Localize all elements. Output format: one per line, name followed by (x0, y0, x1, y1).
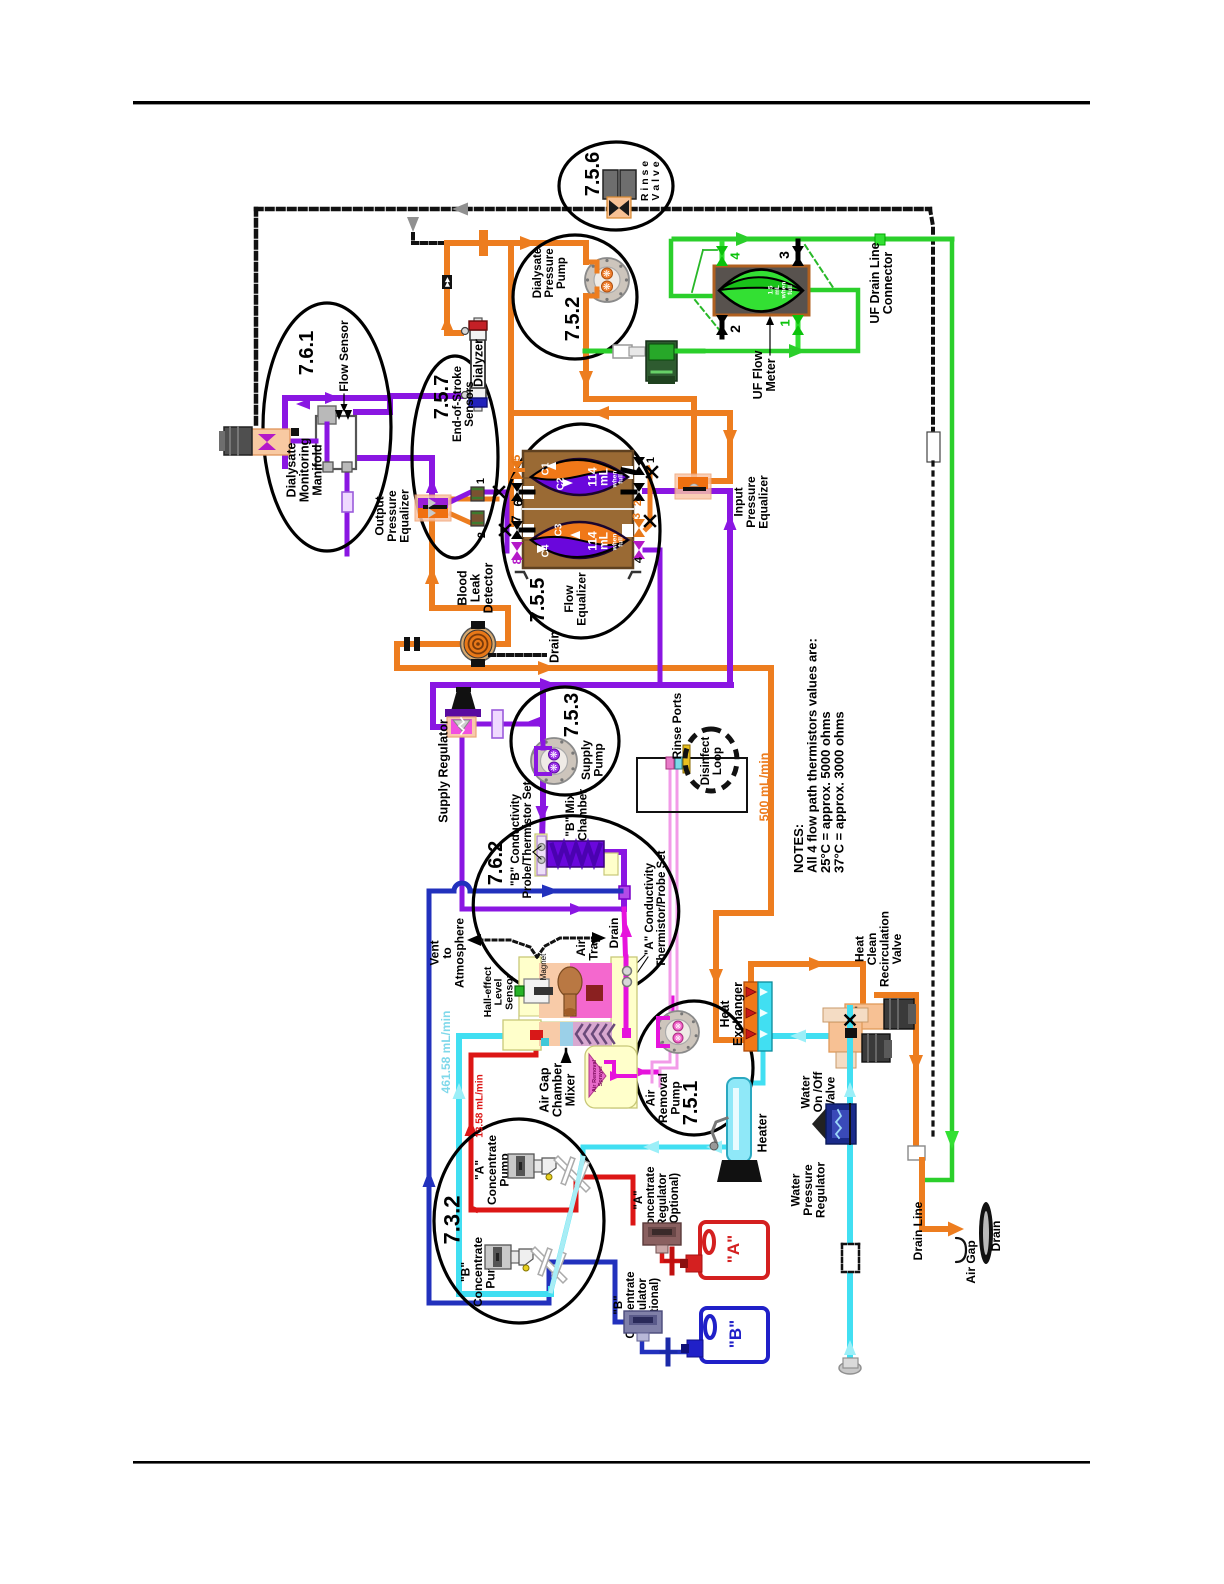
cyan arrow up riser (844, 1082, 856, 1097)
air trap slot (586, 985, 603, 1001)
wire supply pump to B mix chamber (542, 782, 543, 841)
equalizer chamber C1/C2 (531, 459, 628, 495)
wire UF loop left dashed (695, 300, 721, 332)
svg-text:VenttoAtmosphere: VenttoAtmosphere (428, 918, 467, 988)
white arrow C4 (537, 545, 547, 553)
supply regulator body (447, 717, 476, 737)
svg-text:2: 2 (632, 500, 644, 506)
drain line connector (908, 1146, 925, 1160)
cyan open arrow to pumps (643, 1141, 659, 1154)
svg-text:7.6.2: 7.6.2 (485, 841, 507, 885)
water valve plug (845, 1028, 857, 1038)
svg-text:7.5.6: 7.5.6 (582, 152, 604, 196)
wire UF loop right dashed diagonal (805, 245, 834, 289)
svg-text:7.5.2: 7.5.2 (562, 297, 584, 341)
connector on dotted drain line (927, 432, 940, 462)
wire UF drain top run (674, 237, 952, 242)
cyan open arrow 2 (706, 1141, 722, 1154)
wire red A pump to regulator (471, 1177, 633, 1223)
regulator magenta chamber (451, 719, 472, 734)
wire cyan heat exchanger to water valve (771, 1033, 850, 1039)
svg-text:Flow Sensor: Flow Sensor (337, 320, 351, 392)
black stub valve 3 (796, 241, 801, 290)
EOS sensor barrel 1 (471, 487, 484, 501)
svg-text:❋: ❋ (549, 763, 559, 771)
wire orange top supply run (447, 240, 586, 246)
UF valve 4 (716, 246, 728, 256)
wire orange to heat clean recirc valve (751, 964, 863, 1004)
wire orange output equalizer to blood leak detector (432, 521, 508, 641)
wire disinfect dashed top run (256, 207, 930, 212)
hall effect level sensor (524, 979, 549, 1003)
X mark recirc valve (846, 1029, 854, 1037)
pointer flow sensor (343, 394, 345, 410)
wire valve1 stub down (796, 290, 801, 351)
dialysate pressure pump icon (585, 258, 629, 302)
wire red A concentrate suction (471, 1036, 536, 1210)
callout ellipse 7.5.6 (559, 142, 673, 230)
svg-text:7.5.3: 7.5.3 (561, 693, 583, 737)
svg-text:Dialyzer: Dialyzer (471, 339, 485, 387)
mix chamber coil zigzag (552, 845, 600, 863)
vent arrow (467, 934, 481, 946)
jug A handle (704, 1231, 714, 1253)
A concentrate pump icon (508, 1154, 534, 1178)
svg-text:InputPressureEqualizer: InputPressureEqualizer (732, 475, 771, 529)
mix chamber left tab (535, 834, 547, 876)
wire supply regulator stem to A-line junction (462, 736, 624, 909)
black stub valve R1 (623, 470, 633, 472)
svg-text:HeatExchanger: HeatExchanger (718, 982, 745, 1046)
purple arrow on return rail (540, 678, 558, 692)
air trap pink chamber (570, 963, 612, 1018)
exchanger cold arrow (760, 988, 768, 996)
svg-text:Drain: Drain (607, 918, 621, 949)
check valve on BLD line (404, 637, 410, 651)
pump inlet bracket orange (586, 262, 597, 271)
wire purple rail to supply pump (540, 686, 546, 740)
svg-text:7.3.2: 7.3.2 (440, 1196, 465, 1245)
regulator diaphragm (453, 720, 470, 731)
black stub valve 2 (720, 290, 725, 337)
black stub valve R2 (623, 490, 635, 495)
wire orange drop to EOS manifold (508, 243, 514, 524)
A conductivity probe 2 (623, 978, 632, 987)
svg-text:7.5.7: 7.5.7 (431, 375, 453, 419)
svg-text:2: 2 (727, 325, 743, 333)
wire orange recirc valve to drain line (877, 995, 916, 1150)
wire supply regulator to pump leg (476, 722, 543, 727)
svg-text:Air GapChamberMixer: Air GapChamberMixer (537, 1063, 577, 1117)
exchanger cold arrow (760, 1030, 768, 1038)
OPE diamond bottom (428, 508, 436, 518)
orange arrow to input equalizer (723, 430, 737, 447)
water valve lower (836, 1052, 856, 1068)
rinse port pink (666, 757, 674, 769)
purple arrow into mix chamber (536, 806, 549, 822)
IPE diaphragm dome (690, 484, 698, 486)
recirc valve nose (833, 1010, 845, 1023)
wire blue degassed water line west (429, 889, 454, 894)
junction square magenta (622, 1028, 631, 1038)
UF drain line connector square (875, 234, 885, 245)
drain funnel (979, 1202, 993, 1264)
svg-text:5: 5 (509, 454, 523, 461)
wire blue to B concentrate loop (429, 891, 624, 1322)
svg-text:DialysatePressurePump: DialysatePressurePump (532, 248, 568, 299)
A concentrate pump icon valve cross (560, 1164, 582, 1180)
wire dashed link to orange line (413, 234, 442, 243)
equalizer mount feet (516, 572, 527, 578)
water pressure regulator (812, 1106, 828, 1142)
page bottom rule (133, 1461, 1090, 1464)
water valve top flange (823, 1008, 868, 1022)
wire disinfect dotted right drop lower (931, 462, 934, 1138)
B conductivity probe holder (537, 836, 546, 875)
wire orange drain header (511, 410, 730, 416)
purple arrow to regulator (527, 717, 541, 728)
wire B regulator to jug (642, 1338, 686, 1352)
svg-text:"A": "A" (724, 1235, 743, 1263)
vent dotted lines (472, 940, 537, 957)
svg-text:1: 1 (645, 457, 657, 463)
svg-text:UF FlowMeter: UF FlowMeter (751, 350, 778, 399)
thin rinse port line 2 (660, 769, 677, 1086)
wire disinfect dashed drop to vent valve (254, 209, 259, 427)
pointer B probe (533, 846, 541, 852)
wire orange to input pressure equalizer side (711, 413, 730, 481)
white arrow C3 (570, 531, 580, 539)
equalizer valve 7 (511, 521, 523, 530)
jug A neck (686, 1255, 702, 1272)
jug A (700, 1222, 768, 1278)
chamber C4 purple half (531, 537, 628, 557)
heater base (717, 1160, 762, 1182)
equalizer valve notch right (622, 524, 633, 537)
thin UF line top left (703, 249, 717, 251)
svg-text:Air Gap: Air Gap (964, 1240, 978, 1283)
water inlet fitting (839, 1362, 861, 1374)
svg-text:Drain Line: Drain Line (911, 1201, 925, 1260)
magenta arrow to air removal pump (634, 1066, 648, 1078)
air removal sprayer housing (585, 1046, 637, 1108)
manifold arrow 1 (335, 410, 343, 420)
wire A regulator to jug (662, 1247, 686, 1261)
stub valve5 (511, 468, 523, 472)
wire purple main return rail (433, 682, 731, 688)
wire purple manifold lower stem (345, 469, 350, 554)
svg-text:❋: ❋ (549, 750, 559, 758)
wire cyan through water valve (847, 1008, 853, 1072)
orange arrow on drain run (538, 661, 556, 675)
wire cyan exchanger to heater (741, 1051, 763, 1083)
air removal pump icon (657, 1011, 699, 1053)
input pressure equalizer body (675, 474, 711, 499)
wire orange drop to dialyzer (447, 243, 461, 333)
svg-text:"A" ConductivityThermistor/Pro: "A" ConductivityThermistor/Probe Set (644, 850, 668, 967)
wire BLD out to drain run (397, 644, 464, 668)
pump gears orange (602, 268, 613, 279)
air gap brace (956, 1238, 966, 1262)
water valve motor (862, 1034, 890, 1062)
air gap chamber mixer section (503, 1020, 541, 1050)
svg-text:Supply Regulator: Supply Regulator (436, 719, 450, 823)
vent valve motor (224, 427, 252, 455)
wire orange main drain run 500mL (397, 665, 771, 671)
svg-text:7.6.1: 7.6.1 (296, 331, 318, 375)
wire purple to supply regulator (433, 685, 449, 727)
orange arrow up at dialyzer (441, 316, 453, 330)
A conductivity probe 2 top (623, 978, 632, 987)
equalizer valve R4 (633, 541, 645, 550)
svg-text:Drain: Drain (547, 631, 561, 663)
callout ellipse 7.5.7 (412, 356, 498, 558)
blood leak detector (461, 627, 496, 662)
wire purple OPE to EOS sensor 1 (448, 492, 471, 503)
purple arrow left on loop (296, 399, 310, 410)
thin rinse port line 1 (652, 769, 670, 1082)
valve cross on A jug line (670, 1249, 675, 1273)
OPE diamond top (428, 498, 436, 508)
check valve on dialyzer feed (442, 275, 452, 289)
equalizer valve notch right (622, 466, 633, 479)
wire orange into dialysate pressure pump (583, 243, 589, 262)
rinse ports panel (637, 758, 747, 812)
junction square on magenta line (622, 1028, 631, 1038)
svg-text:FlowEqualizer: FlowEqualizer (562, 572, 588, 626)
orange arrow to recirc valve (809, 957, 826, 971)
blue hop over purple stem (454, 883, 470, 891)
svg-text:AirRemovalPump: AirRemovalPump (644, 1073, 683, 1123)
equalizer valve 8 (511, 542, 523, 551)
callout circle 7.5.3 (511, 687, 619, 795)
recirc valve plunger (850, 1008, 853, 1025)
callout ellipse 7.6.2 (460, 801, 692, 1015)
wire purple vent valve to manifold (276, 439, 316, 444)
equalizer valve R2 (633, 483, 645, 492)
svg-text:C3: C3 (554, 523, 565, 536)
B concentrate pump icon (485, 1245, 511, 1269)
wire purple manifold left loop (285, 398, 388, 466)
capsule fitting on pump leg (492, 710, 503, 738)
stub manifold right fitting (345, 458, 350, 462)
svg-text:▶▶: ▶▶ (444, 277, 451, 288)
dashed break on water riser (842, 1244, 859, 1272)
black stub valve 7 (521, 528, 533, 533)
wire orange valve1 to valve3 bypass (646, 468, 650, 529)
cyan arrow at inlet (844, 1340, 856, 1355)
air trap float (558, 967, 582, 997)
white arrow C2 (563, 479, 573, 487)
heater tube (727, 1078, 751, 1162)
gray flow arrow on dashed line (452, 203, 468, 216)
green arrow at dotted line end (945, 1131, 959, 1149)
wire orange OPE to EOS sensor 2 (451, 514, 471, 523)
svg-text:C1: C1 (541, 462, 552, 475)
svg-text:UF Drain LineConnector: UF Drain LineConnector (868, 242, 895, 323)
wire purple inside manifold (325, 424, 330, 462)
equalizer valve notch left (523, 524, 534, 537)
orange arrow down from pump (579, 371, 593, 388)
manifold fitting right (342, 462, 352, 472)
svg-text:DialysateMonitoringManifold: DialysateMonitoringManifold (284, 438, 324, 503)
svg-text:❋: ❋ (674, 1022, 683, 1029)
svg-text:13.58 mL/min: 13.58 mL/min (475, 1074, 486, 1137)
wire UF drain right drop to drain (922, 239, 952, 1180)
black stub valve 6 (521, 490, 533, 495)
exchanger arrow (746, 987, 756, 997)
capsule fitting on manifold stem (342, 492, 353, 512)
wire purple manifold to OPE header (327, 458, 432, 462)
wire 500 mL/min drain to heat exchanger (716, 668, 771, 1040)
rinse valve body right (620, 170, 636, 199)
rinse valve port bowtie (609, 200, 619, 216)
cyan tube over pump crosses (551, 1158, 583, 1291)
BLD tab bottom (471, 659, 485, 667)
B concentrate pump icon valve cross (537, 1255, 559, 1271)
svg-text:461.58 mL/min: 461.58 mL/min (439, 1011, 453, 1094)
supply regulator flange (445, 709, 481, 717)
capped port on supply line (479, 230, 488, 256)
UF valve 3 (792, 246, 804, 256)
wire orange OPE to valve6 row (451, 497, 497, 502)
svg-text:1: 1 (475, 478, 487, 484)
inline fitting on UF line (613, 345, 632, 358)
vent valve bowtie (258, 434, 276, 442)
svg-text:4: 4 (728, 252, 743, 260)
orange arrow into drain (948, 1222, 964, 1237)
equalizer valve R3 (633, 519, 645, 528)
wire blue degassed water line east (470, 889, 621, 894)
mix chamber right tab (604, 853, 618, 875)
rinse port gold (683, 745, 690, 773)
B mix chamber coil block (547, 841, 604, 867)
svg-text:500 mL/min: 500 mL/min (757, 753, 771, 822)
svg-text:Rinse Ports: Rinse Ports (670, 692, 684, 759)
manifold arrow 2 (344, 410, 352, 420)
equalizer chamber C3/C4 (531, 522, 628, 558)
EOS sensor barrel 2 (471, 511, 484, 526)
disinfect loop dashed circle (685, 729, 737, 791)
purple arrow on manifold loop (325, 392, 340, 404)
orange arrow toward pump (520, 236, 538, 250)
purple arrow up rail (724, 514, 737, 530)
dialyzer outlet fitting (462, 392, 469, 399)
pointer A probes (630, 955, 645, 970)
X mark valve R3 (645, 516, 655, 526)
air gap red valve (530, 1030, 543, 1040)
red arrow up (465, 1120, 478, 1136)
svg-text:Magnet: Magnet (539, 953, 548, 980)
white arrow C1 (546, 462, 556, 470)
svg-text:7: 7 (509, 515, 524, 522)
svg-text:6: 6 (511, 499, 526, 506)
equalizer valve R1 (633, 457, 645, 466)
svg-text:"A"ConcentratePump: "A"ConcentratePump (473, 1135, 512, 1205)
svg-text:"B": "B" (726, 1320, 745, 1348)
svg-text:SupplyPump: SupplyPump (579, 740, 605, 780)
cyan arrow to exchanger (790, 1030, 806, 1043)
magenta arrow up (620, 922, 632, 937)
UF flow meter diaphragm lens (719, 270, 803, 312)
regulator spring (459, 718, 464, 734)
wire purple valve rail 6-8 (505, 492, 510, 551)
svg-text:❋: ❋ (602, 282, 612, 290)
equalizer valve 5 (511, 461, 523, 470)
svg-text:❋: ❋ (674, 1034, 683, 1041)
jug B neck (687, 1340, 703, 1357)
svg-text:"B" ConductivityProbe/Thermist: "B" ConductivityProbe/Thermistor Set (510, 781, 534, 898)
UF solenoid valve (646, 341, 677, 381)
green flow arrow bottom (789, 344, 806, 358)
supply regulator cone (451, 690, 476, 711)
heat exchanger cold side (758, 982, 772, 1051)
drain arrow air trap (592, 932, 606, 944)
wire magenta through air trap column (624, 957, 629, 1030)
svg-text:1: 1 (778, 319, 793, 326)
A conductivity probe 1 (623, 967, 632, 976)
exchanger arrow (746, 1029, 756, 1039)
wire green solenoid to UF loop (677, 349, 703, 354)
callout circle 7.5.2 (513, 235, 637, 359)
callout ellipse 7.5.5 (502, 424, 660, 638)
manifold fitting left (323, 462, 333, 472)
svg-text:3: 3 (776, 251, 792, 259)
orange arrow on drain header (592, 406, 609, 420)
supply pump icon (531, 738, 577, 784)
wire purple valve2 under equalizer to rail (645, 491, 730, 685)
dialyzer cylinder (474, 318, 482, 323)
air trap chamber upper (539, 963, 572, 1018)
wire UF bypass loop left (671, 241, 717, 296)
cyan open arrow up (453, 1083, 466, 1099)
wire cyan through pump crosses to heater (551, 1147, 727, 1291)
svg-text:114mL: 114mL (586, 531, 611, 551)
wire purple valve4 drop (645, 550, 660, 685)
exchanger arrow (746, 1008, 756, 1018)
wire purple into manifold top (356, 397, 390, 412)
jug B (701, 1308, 768, 1362)
UF flow meter body (714, 266, 809, 315)
svg-text:2: 2 (476, 532, 488, 538)
svg-text:7.5.5: 7.5.5 (527, 578, 549, 622)
orange arrow to heat exchanger (709, 969, 723, 986)
purple arrow on lower link (570, 903, 585, 915)
svg-text:R i n s eV a l v e: R i n s eV a l v e (639, 161, 662, 201)
stub air removal pump top (670, 998, 675, 1010)
X mark valve 7 (500, 525, 510, 535)
page top rule (133, 101, 1090, 104)
svg-text:OutputPressureEqualizer: OutputPressureEqualizer (373, 489, 412, 543)
dialyzer inlet fitting (462, 328, 469, 335)
svg-text:7.5.1: 7.5.1 (680, 1081, 702, 1125)
svg-text:114mL: 114mL (586, 467, 611, 487)
UF valve 1 (792, 315, 804, 325)
jug B handle (705, 1316, 715, 1338)
svg-text:3: 3 (631, 513, 643, 519)
orange arrow up from OPE (425, 567, 439, 584)
svg-text:Hall-effectLevelSensor: Hall-effectLevelSensor (482, 966, 516, 1017)
wire cyan water supply riser (847, 1012, 853, 1368)
air trap outer housing (519, 957, 541, 1050)
dialyzer red cap (469, 321, 487, 330)
purple arrow up into header (426, 478, 438, 493)
wire disinfect dotted right drop upper (930, 209, 933, 430)
B probe 1 (538, 844, 545, 851)
output pressure equalizer body (415, 495, 451, 521)
A concentrate regulator (643, 1223, 681, 1245)
water valve body (829, 1022, 862, 1052)
